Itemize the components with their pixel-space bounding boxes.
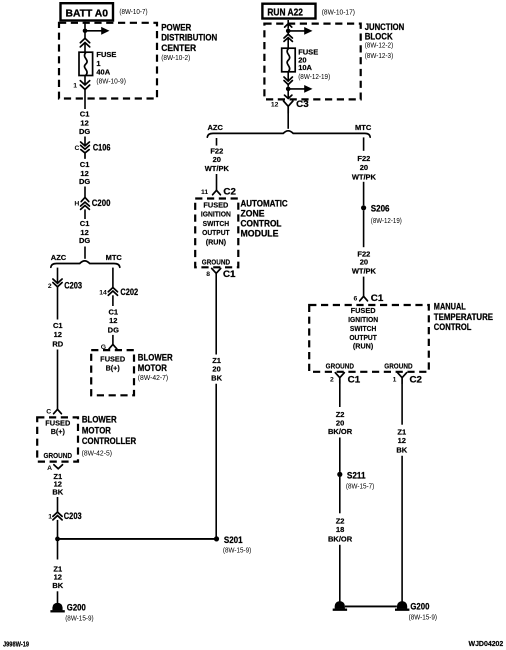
svg-text:(8W-12-19): (8W-12-19) [298, 72, 330, 81]
svg-text:GROUND: GROUND [202, 257, 230, 266]
wire WT/PK to splice S206 [363, 182, 365, 206]
wire junction to splice S201 [58, 538, 217, 540]
svg-text:DG: DG [79, 177, 90, 186]
circuit label C1 12 DG (blower) [108, 307, 119, 334]
connector C1 fork (MTC) [360, 296, 368, 301]
svg-text:B(+): B(+) [51, 427, 66, 436]
svg-text:ZONE: ZONE [241, 209, 265, 219]
wire split to F22 label (AZC) [216, 138, 218, 146]
svg-text:C2: C2 [410, 375, 423, 385]
blower motor controller label [82, 415, 137, 458]
blower motor inner labels [100, 354, 125, 372]
wire junction to fuse 1 [84, 33, 86, 52]
svg-text:(8W-42-7): (8W-42-7) [138, 373, 169, 382]
wire BATT A0 to junction [84, 22, 86, 29]
svg-text:20: 20 [360, 163, 368, 172]
svg-text:1: 1 [393, 377, 397, 384]
svg-text:BLOWER: BLOWER [82, 415, 117, 425]
wire DG to split [84, 247, 86, 259]
manual temperature control label [434, 302, 493, 332]
wire WT/PK to C1 (MTC) [363, 277, 365, 297]
split symbol AZC/MTC (left) [51, 261, 120, 267]
circuit label C1 12 DG (2) [79, 160, 90, 186]
svg-text:(8W-10-7): (8W-10-7) [119, 7, 148, 16]
svg-text:C200: C200 [92, 198, 111, 208]
svg-text:Z2: Z2 [336, 516, 345, 525]
wire BK to splice S201 [215, 384, 217, 539]
svg-text:BK: BK [52, 488, 63, 497]
wire split to F22 label (MTC) [363, 137, 365, 150]
svg-text:RD: RD [52, 339, 63, 348]
ground G200 left symbol [50, 603, 64, 612]
svg-text:AZC: AZC [51, 253, 67, 262]
svg-text:MODULE: MODULE [241, 229, 279, 239]
wire BK/OR to splice S211 [339, 438, 341, 472]
svg-text:CONTROL: CONTROL [241, 219, 282, 229]
svg-text:2: 2 [330, 377, 334, 384]
wire C202 down [112, 295, 114, 306]
wire BK to ground G200 right [401, 456, 403, 604]
svg-text:Z1: Z1 [212, 356, 221, 365]
wire RD to blower motor controller [57, 350, 59, 410]
wire BK/OR to ground left of pair [339, 545, 341, 604]
svg-text:C1: C1 [53, 321, 63, 330]
svg-text:(8W-10-2): (8W-10-2) [161, 53, 191, 62]
svg-text:GROUND: GROUND [384, 362, 412, 371]
wire fuse 20 to lower junction [287, 72, 289, 87]
circuit label Z2 20 BK/OR [328, 410, 353, 436]
svg-text:40A: 40A [96, 67, 110, 76]
ground G200 right symbol [395, 601, 409, 610]
svg-text:BATT A0: BATT A0 [66, 9, 109, 20]
svg-text:MTC: MTC [106, 253, 123, 262]
wire C203 through junction to Z1 label [57, 520, 59, 560]
connector chevrons above fuse 1 [80, 38, 89, 47]
wire junction to fuse 20 [287, 33, 289, 48]
svg-text:12: 12 [271, 101, 279, 108]
svg-text:RUN A22: RUN A22 [267, 7, 303, 18]
circuit label Z2 18 BK/OR [328, 516, 353, 543]
junction node to S201 [55, 537, 60, 542]
svg-text:C1: C1 [80, 160, 90, 169]
svg-text:14: 14 [99, 290, 107, 297]
svg-text:C: C [74, 145, 79, 152]
svg-text:(8W-15-7): (8W-15-7) [346, 482, 375, 491]
automatic zone control module label [241, 198, 289, 238]
wire DG to blower motor [112, 335, 114, 345]
svg-text:FUSED: FUSED [100, 354, 125, 363]
svg-text:BK/OR: BK/OR [328, 427, 353, 436]
connector chevrons below fuse 1 [80, 81, 89, 90]
connector C2 fork (MTC ground 2) [398, 373, 407, 384]
connector C3 fork [284, 101, 293, 113]
svg-text:C: C [46, 409, 51, 416]
svg-text:OUTPUT: OUTPUT [202, 228, 230, 237]
circuit label F22 20 WT/PK (MTC upper) [352, 154, 377, 181]
svg-text:WJD04202: WJD04202 [469, 639, 504, 648]
svg-text:WT/PK: WT/PK [205, 164, 230, 173]
svg-text:C106: C106 [93, 142, 111, 152]
wire C3 to split [287, 113, 289, 129]
svg-text:1: 1 [48, 514, 52, 521]
svg-text:2: 2 [48, 283, 52, 290]
connector chevrons below fuse 20 [284, 77, 292, 85]
fuse 20 symbol [282, 48, 296, 72]
splice S206 [361, 205, 366, 210]
svg-text:G200: G200 [67, 603, 86, 613]
fuse 1 value label [96, 50, 126, 85]
svg-text:20: 20 [336, 418, 344, 427]
svg-text:C202: C202 [120, 287, 138, 297]
svg-text:(8W-10-9): (8W-10-9) [96, 76, 126, 85]
wire DG to C106 [84, 137, 86, 146]
splice S201 [214, 536, 219, 541]
power distribution center dashed box [59, 23, 157, 99]
connector C203 lower chevrons [53, 512, 62, 520]
svg-text:DG: DG [79, 236, 90, 245]
ground symbol left of pair [333, 601, 347, 610]
svg-text:AZC: AZC [208, 123, 224, 132]
svg-text:AUTOMATIC: AUTOMATIC [241, 198, 289, 208]
svg-text:H: H [74, 201, 79, 208]
svg-text:8: 8 [206, 271, 210, 278]
fuse 20 value label [298, 48, 330, 81]
svg-text:MANUAL: MANUAL [434, 302, 466, 312]
svg-text:JUNCTION: JUNCTION [365, 22, 405, 32]
wire fuse 1 to C1 label [84, 76, 86, 110]
svg-text:BK: BK [396, 446, 407, 455]
wire DG to C200 [84, 187, 86, 198]
automatic zone control module dashed box [195, 199, 238, 268]
wire lower junction to JB edge [287, 91, 289, 98]
svg-text:CONTROLLER: CONTROLLER [82, 436, 137, 446]
arrow to other circuits (JB lower) [288, 85, 312, 93]
svg-text:WT/PK: WT/PK [352, 172, 377, 181]
svg-text:B(+): B(+) [106, 364, 121, 373]
wire AZC ground down [215, 273, 217, 354]
entry chevron at JB top [285, 24, 292, 27]
connector C200 symbol [81, 197, 90, 209]
wire S206 to F22 label [363, 210, 365, 247]
exit chevron at JB bottom [285, 95, 292, 98]
svg-text:A: A [47, 465, 52, 472]
wire C203 down [57, 287, 59, 320]
svg-text:FUSED: FUSED [351, 306, 376, 315]
svg-text:DISTRIBUTION: DISTRIBUTION [161, 33, 217, 43]
svg-text:(8W-12-19): (8W-12-19) [371, 216, 402, 225]
svg-text:POWER: POWER [161, 22, 192, 32]
junction block label [365, 22, 405, 60]
svg-text:(8W-12-3): (8W-12-3) [365, 51, 394, 60]
fuse 1 symbol [79, 52, 93, 75]
pin C fork [54, 409, 62, 413]
svg-text:11: 11 [201, 189, 208, 196]
junction block dashed box [264, 24, 360, 100]
svg-text:WT/PK: WT/PK [352, 266, 377, 275]
svg-text:IGNITION: IGNITION [348, 315, 378, 324]
wire split to C202 [112, 268, 114, 288]
connector C1 fork (AZC ground) [212, 268, 221, 273]
circuit label Z1 12 BK (MTC) [396, 427, 407, 454]
svg-text:C203: C203 [64, 511, 82, 521]
svg-text:BLOWER: BLOWER [138, 352, 173, 362]
connector chevrons above fuse 20 [284, 34, 292, 41]
svg-text:(8W-15-9): (8W-15-9) [409, 613, 438, 622]
fuse-feed box RUN A22 [262, 4, 315, 19]
svg-text:C1: C1 [80, 110, 90, 119]
svg-text:SWITCH: SWITCH [203, 219, 230, 228]
svg-text:FUSED: FUSED [203, 201, 228, 210]
svg-text:S206: S206 [371, 204, 390, 214]
connector C1 fork (MTC ground 1) [335, 373, 344, 384]
wire BK to C203 lower [57, 497, 59, 512]
svg-text:C1: C1 [348, 375, 361, 385]
svg-text:CONTROL: CONTROL [434, 322, 472, 332]
svg-text:DG: DG [108, 326, 119, 335]
circuit label F22 20 WT/PK (MTC lower) [352, 249, 377, 275]
pin A fork [54, 465, 63, 469]
wire MTC ground1 down [339, 383, 341, 407]
circuit label Z1 20 BK [211, 356, 222, 383]
circuit label C1 12 DG (1) [79, 110, 90, 136]
svg-text:S201: S201 [224, 535, 243, 545]
svg-text:18: 18 [336, 525, 344, 534]
svg-text:GROUND: GROUND [44, 451, 73, 460]
azc module inner labels [201, 201, 231, 267]
wire MTC ground2 down [401, 383, 403, 424]
svg-text:BK: BK [52, 581, 63, 590]
wire C200 down [84, 209, 86, 219]
mtc inner labels [326, 306, 413, 371]
connector C202 chevrons [108, 288, 117, 296]
arrow to other circuits (PDC) [85, 27, 110, 35]
svg-text:C203: C203 [64, 281, 82, 291]
svg-text:MOTOR: MOTOR [82, 425, 112, 435]
wire RUN A22 into junction block [287, 20, 289, 29]
svg-text:G200: G200 [410, 602, 429, 612]
svg-text:J998W-19: J998W-19 [3, 639, 29, 648]
svg-text:BK: BK [211, 374, 222, 383]
svg-text:C3: C3 [296, 99, 309, 109]
splice S211 [337, 472, 342, 477]
svg-text:OUTPUT: OUTPUT [349, 333, 377, 342]
circuit label C1 12 RD [52, 321, 63, 348]
svg-text:(RUN): (RUN) [206, 238, 227, 247]
junction node upper in JB [286, 29, 291, 34]
svg-text:IGNITION: IGNITION [201, 210, 231, 219]
svg-text:F22: F22 [357, 154, 370, 163]
wire S211 to Z2 label [339, 477, 341, 513]
svg-text:S211: S211 [347, 471, 366, 481]
svg-text:CENTER: CENTER [161, 43, 196, 53]
connector C106 symbol [81, 142, 90, 158]
svg-text:12: 12 [54, 330, 62, 339]
svg-text:(8W-10-17): (8W-10-17) [322, 7, 356, 16]
blower motor controller inner labels [44, 419, 73, 460]
svg-text:Z1: Z1 [397, 427, 406, 436]
circuit label C1 12 DG (3) [79, 219, 90, 245]
svg-text:6: 6 [354, 296, 358, 303]
wire split to C203 [57, 268, 59, 284]
svg-text:MOTOR: MOTOR [138, 363, 168, 373]
connector C203 chevrons [53, 279, 62, 287]
junction node lower in JB [286, 87, 291, 92]
manual temperature control dashed box [309, 305, 429, 372]
circuit label F22 20 WT/PK (AZC) [205, 147, 230, 173]
blower motor controller dashed box [37, 417, 78, 461]
svg-text:(8W-15-9): (8W-15-9) [65, 614, 94, 623]
circuit label Z1 12 BK (upper) [52, 472, 63, 497]
svg-text:(8W-12-2): (8W-12-2) [365, 41, 394, 50]
blower motor dashed box [91, 350, 134, 395]
svg-text:20: 20 [213, 155, 221, 164]
svg-text:TEMPERATURE: TEMPERATURE [434, 312, 493, 322]
svg-text:C1: C1 [223, 269, 236, 279]
svg-text:MTC: MTC [355, 123, 372, 132]
wire WT/PK to C2 [216, 174, 218, 190]
junction node in PDC [83, 29, 88, 34]
pin G fork [109, 344, 117, 348]
connector C2 fork [213, 190, 221, 194]
blower motor label [138, 352, 173, 382]
svg-text:12: 12 [398, 436, 406, 445]
svg-text:20: 20 [360, 258, 368, 267]
svg-text:1: 1 [73, 83, 77, 90]
svg-text:SWITCH: SWITCH [350, 324, 377, 333]
circuit label Z1 12 BK (lower) [52, 564, 63, 590]
svg-text:(8W-15-9): (8W-15-9) [223, 545, 252, 554]
svg-text:BK/OR: BK/OR [328, 535, 353, 544]
svg-text:GROUND: GROUND [326, 362, 354, 371]
svg-text:DG: DG [79, 127, 90, 136]
svg-text:(8W-42-5): (8W-42-5) [82, 448, 113, 457]
svg-text:C1: C1 [371, 293, 384, 303]
power distribution center label [161, 22, 217, 62]
arrow to other circuits (JB upper) [288, 27, 312, 35]
svg-text:C2: C2 [223, 187, 236, 197]
svg-text:(RUN): (RUN) [353, 342, 374, 351]
svg-text:C1: C1 [109, 307, 119, 316]
fuse-feed box BATT A0 [61, 3, 114, 20]
svg-text:20: 20 [212, 365, 220, 374]
split symbol AZC/MTC (right) [207, 131, 370, 137]
wire between ground domes [345, 605, 397, 607]
svg-text:12: 12 [109, 316, 117, 325]
wire BK to ground G200 left [57, 591, 59, 606]
